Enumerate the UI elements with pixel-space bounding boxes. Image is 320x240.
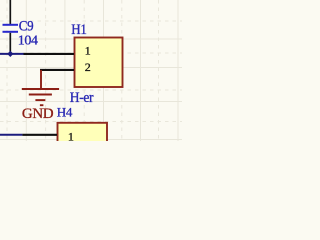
svg-text:GND: GND [22, 106, 54, 122]
svg-text:H4: H4 [57, 105, 73, 120]
pin 1 [24, 43, 91, 57]
label C9 [19, 19, 34, 35]
svg-text:H-er: H-er [70, 90, 94, 107]
svg-text:H1: H1 [71, 22, 87, 38]
pin 2 [40, 60, 91, 74]
ground GND [22, 70, 59, 105]
label H-er [70, 90, 94, 107]
connector H1 [75, 38, 123, 88]
wire [0, 134, 22, 136]
svg-text:C9: C9 [19, 19, 34, 35]
junction [7, 51, 13, 57]
svg-text:104: 104 [18, 34, 38, 49]
svg-text:1: 1 [85, 43, 91, 57]
pin 1 [22, 130, 74, 144]
capacitor C9 [3, 0, 19, 53]
svg-text:1: 1 [68, 130, 74, 142]
connector H4 [58, 123, 108, 148]
wire [0, 53, 24, 55]
svg-text:2: 2 [85, 60, 91, 74]
label H1 [71, 22, 87, 38]
